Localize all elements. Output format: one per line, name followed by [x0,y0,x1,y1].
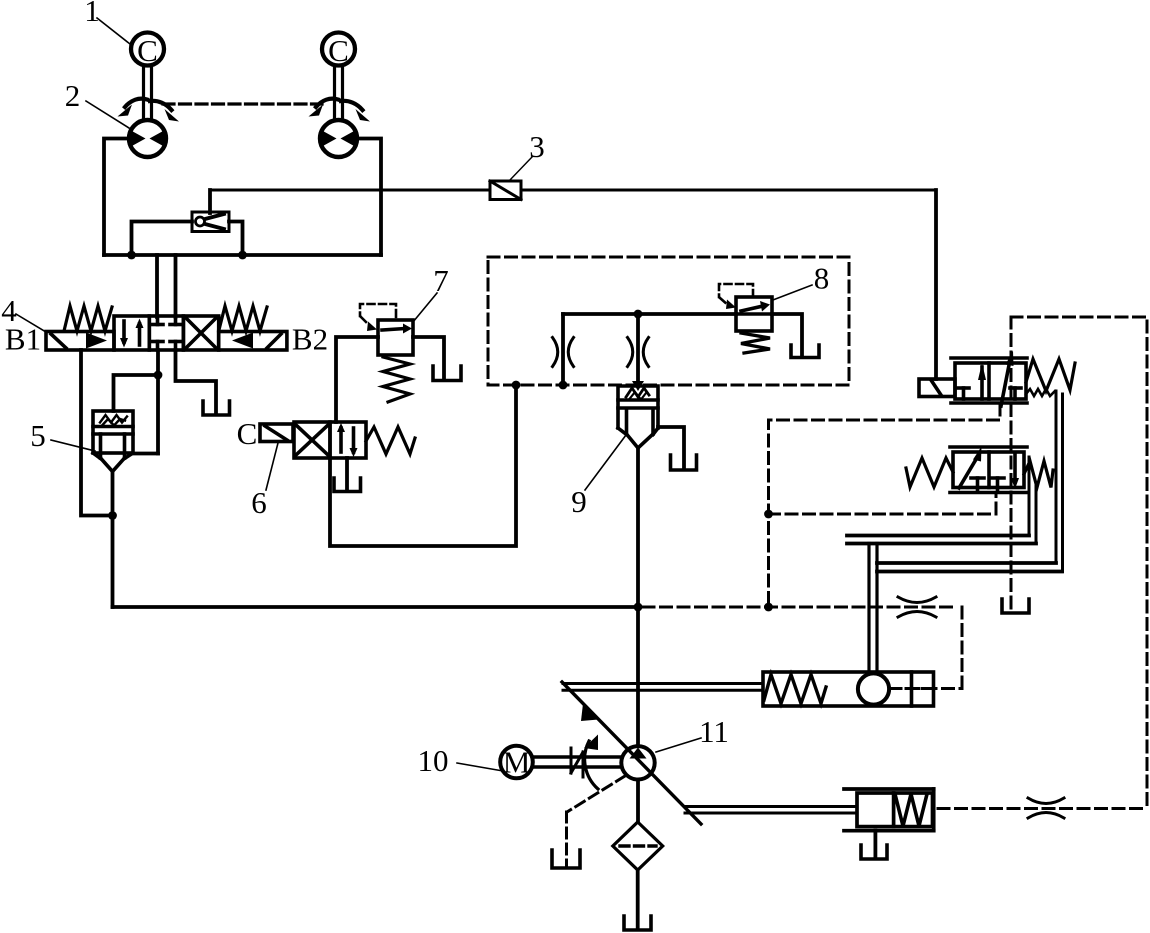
svg-text:5: 5 [30,418,46,453]
svg-text:3: 3 [529,129,545,164]
svg-text:8: 8 [814,261,830,296]
svg-text:M: M [503,745,531,780]
svg-text:C: C [237,416,258,451]
svg-text:1: 1 [84,0,100,28]
svg-text:C: C [328,33,349,68]
svg-text:B2: B2 [292,322,328,357]
svg-text:10: 10 [418,743,449,778]
svg-text:9: 9 [571,484,587,519]
svg-text:C: C [137,33,158,68]
svg-text:6: 6 [251,485,267,520]
svg-text:2: 2 [65,78,81,113]
svg-text:B1: B1 [5,322,41,357]
svg-text:7: 7 [433,263,449,298]
svg-text:11: 11 [699,714,729,749]
